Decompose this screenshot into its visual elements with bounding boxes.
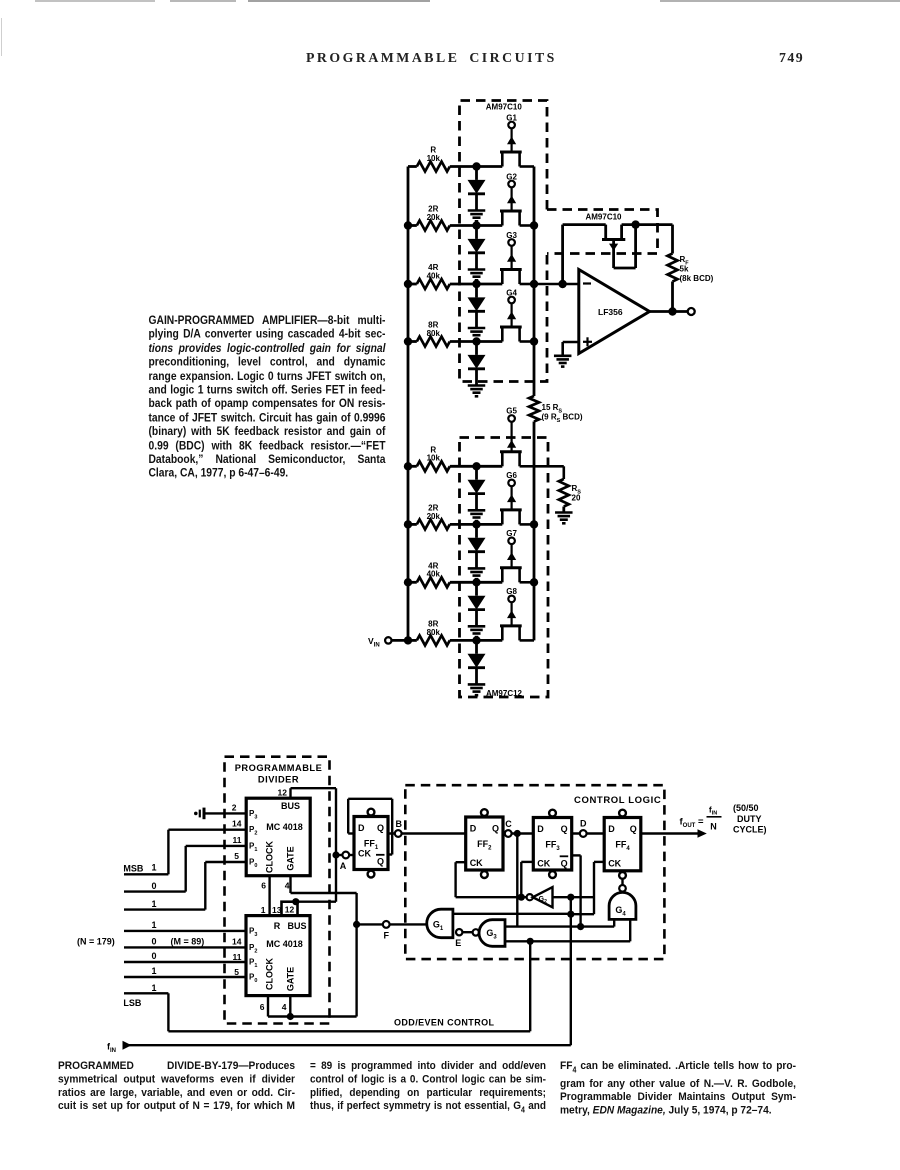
wire row 2 top section	[408, 224, 417, 227]
wire feedback top left	[563, 223, 606, 226]
svg-text:P0: P0	[249, 858, 257, 870]
wire chip1 P2 from MSB	[168, 829, 246, 831]
svg-text:5: 5	[234, 851, 239, 861]
svg-text:F: F	[383, 931, 389, 941]
svg-text:10k: 10k	[427, 154, 441, 163]
wire FF1 Qbar to D loop	[388, 853, 392, 855]
dashed box CONTROL LOGIC	[405, 785, 664, 959]
node chip2 pin12 junction	[292, 898, 299, 905]
terminal VIN	[385, 637, 391, 643]
wire odd-even to F riser	[290, 1015, 356, 1017]
wire inverting input line	[534, 283, 579, 286]
svg-text:5k: 5k	[680, 265, 689, 274]
wire E link	[462, 931, 472, 933]
diode clamp row 1 top	[475, 167, 478, 180]
svg-text:P2: P2	[249, 825, 257, 837]
wire fIN line	[129, 1044, 571, 1046]
wire chip1 P3	[204, 812, 246, 814]
svg-text:GATE: GATE	[286, 967, 296, 991]
diode clamp row 1 bottom	[475, 466, 478, 479]
caption column 2	[310, 1060, 546, 1118]
svg-text:1: 1	[151, 966, 156, 976]
ground (row 2 bottom)	[468, 567, 486, 570]
svg-text:Q: Q	[630, 824, 637, 834]
svg-text:D: D	[608, 824, 615, 834]
transistor JFET switch G7	[500, 566, 522, 569]
wire LSB riser to G3	[529, 941, 531, 1031]
svg-text:CK: CK	[537, 859, 550, 869]
diode clamp row 4 bottom	[475, 640, 478, 653]
svg-text:P0: P0	[249, 973, 257, 985]
wire chip1 P0 input	[205, 861, 246, 863]
wire G5 drain to right bus	[520, 465, 534, 468]
svg-text:LSB: LSB	[123, 998, 142, 1008]
wire RF bottom lead	[671, 282, 674, 312]
flip-flop FF2	[466, 817, 503, 870]
wire FF2 Q down to G3	[516, 834, 518, 927]
svg-text:P1: P1	[249, 958, 257, 970]
IC U2 MC4018 (upper)	[246, 798, 310, 876]
svg-text:13: 13	[272, 905, 282, 915]
svg-text:80k: 80k	[427, 628, 441, 637]
wire feedback riser	[561, 225, 564, 284]
resistor 2R 20k (bottom section)	[417, 519, 450, 529]
terminal B	[395, 830, 402, 837]
wire G3 input1 to G4	[505, 925, 614, 927]
svg-text:0: 0	[151, 881, 156, 891]
node right bus row2 top	[530, 221, 538, 229]
svg-text:G2: G2	[506, 172, 517, 181]
svg-text:FF2: FF2	[477, 839, 492, 852]
svg-text:CLOCK: CLOCK	[265, 841, 275, 873]
resistor 8R 80k (top section)	[417, 337, 450, 347]
node LSB junction G3	[527, 938, 534, 945]
svg-text:0: 0	[151, 951, 156, 961]
node diode junction row 4 top	[472, 337, 480, 345]
node junction on left bus y=341.5	[404, 337, 412, 345]
svg-text:11: 11	[233, 952, 242, 962]
caption column 1	[58, 1060, 295, 1113]
wire chip2 P3 input	[124, 930, 246, 932]
wire chip2 pin4	[289, 996, 291, 1017]
node chip2 pin4 junction	[287, 1013, 294, 1020]
bubble G4 top	[619, 885, 626, 892]
wire chip2 pin6	[267, 996, 269, 1017]
node diode junction row 1 top	[472, 162, 480, 170]
svg-text:B: B	[396, 819, 403, 829]
dashed box PROGRAMMABLE DIVIDER	[225, 757, 330, 1024]
svg-text:4: 4	[282, 1002, 287, 1012]
wire chip2 P2 input	[124, 946, 246, 948]
wire chip1 pin6 to chip2 pins 1,13	[268, 876, 270, 916]
wire FF2 Q to FF3 D (node C)	[503, 832, 533, 834]
svg-text:1: 1	[151, 983, 156, 993]
ground (row 4 top)	[468, 384, 486, 387]
svg-text:20k: 20k	[427, 512, 441, 521]
node diode junction row 2 bottom	[472, 520, 480, 528]
wire G8 drain to right bus	[520, 639, 534, 642]
node right bus row3 bottom	[530, 578, 538, 586]
node A tie on bus	[332, 851, 339, 858]
flip-flop FF1	[354, 817, 388, 870]
gate G1	[427, 909, 453, 938]
terminal F	[383, 921, 390, 928]
node junction on left bus y=284.0	[404, 280, 412, 288]
svg-text:5: 5	[234, 967, 239, 977]
transistor JFET switch G5	[500, 450, 522, 453]
svg-text:10k: 10k	[427, 454, 441, 463]
transistor feedback JFET (gate tied)	[602, 238, 625, 241]
svg-text:40k: 40k	[427, 271, 441, 280]
wire right bus (top AM97C10)	[533, 167, 536, 382]
svg-text:DUTY: DUTY	[737, 814, 762, 824]
svg-text:MSB: MSB	[123, 864, 143, 874]
node diode junction row 4 bottom	[472, 636, 480, 644]
node output junction	[668, 307, 676, 315]
svg-text:LF356: LF356	[598, 307, 623, 317]
svg-text:C: C	[505, 819, 512, 829]
svg-text:G4: G4	[615, 905, 626, 918]
svg-text:BUS: BUS	[287, 921, 306, 931]
wire row 3 top section	[408, 283, 417, 286]
node F junction	[353, 921, 360, 928]
wire G3 drain to right bus	[520, 283, 534, 286]
wire F line	[357, 923, 383, 925]
svg-text:14: 14	[232, 819, 242, 829]
wire right bus (AM97C12)	[533, 466, 536, 640]
svg-text:11: 11	[233, 835, 242, 845]
wire left input bus (top ladder)	[407, 167, 410, 641]
wire LSB	[124, 992, 168, 994]
dashed box IC AM97C10 (switches G1-G4)	[460, 101, 548, 382]
wire F to G1	[390, 923, 426, 925]
gate G4 NAND	[609, 892, 636, 919]
node diode junction row 2 top	[472, 221, 480, 229]
wire chip2 P0 input	[124, 976, 246, 978]
svg-text:P3: P3	[249, 926, 257, 938]
ground (row 4 bottom)	[468, 683, 486, 686]
wire row1 to RS 20	[534, 465, 564, 468]
wire op-amp output	[650, 310, 688, 313]
terminal D	[580, 830, 587, 837]
wire FF3 Qbar down	[572, 854, 581, 856]
diode clamp row 2 bottom	[475, 524, 478, 537]
svg-text:6: 6	[260, 1002, 265, 1012]
ground (row 1 top)	[468, 209, 486, 212]
svg-text:G6: G6	[506, 471, 517, 480]
svg-text:P1: P1	[249, 841, 257, 853]
terminal A	[342, 852, 349, 859]
svg-text:AM97C10: AM97C10	[486, 102, 523, 111]
node junction on left bus y=582.3	[404, 578, 412, 586]
wire FF4 Q output	[641, 832, 699, 834]
wire VIN to bus	[392, 639, 409, 642]
svg-text:Q: Q	[377, 857, 384, 867]
svg-text:1: 1	[151, 920, 156, 930]
node diode junction row 1 bottom	[472, 462, 480, 470]
flip-flop FF4	[604, 818, 641, 871]
node fIN to G1 line	[567, 911, 574, 918]
resistor RS 20	[559, 479, 569, 506]
wire row 1 top section	[408, 165, 417, 168]
wire G1 drain to right bus	[520, 165, 534, 168]
wire row 2 bottom section	[408, 523, 417, 526]
svg-text:fIN: fIN	[107, 1042, 116, 1055]
svg-text:G3: G3	[486, 928, 497, 941]
svg-text:D: D	[470, 823, 477, 833]
svg-text:20k: 20k	[427, 213, 441, 222]
svg-text:CONTROL LOGIC: CONTROL LOGIC	[574, 795, 661, 806]
svg-text:12: 12	[285, 905, 295, 915]
svg-text:fIN: fIN	[709, 805, 717, 817]
ground (row 3 top)	[468, 327, 486, 330]
node feedback gate junction	[631, 220, 639, 228]
wire G4 drain to right bus	[520, 340, 534, 343]
svg-text:Q: Q	[561, 824, 568, 834]
svg-text:MC 4018: MC 4018	[266, 822, 303, 832]
svg-text:CK: CK	[470, 858, 483, 868]
svg-text:6: 6	[261, 880, 266, 890]
svg-text:CK: CK	[358, 849, 371, 859]
svg-text:G1: G1	[506, 113, 517, 122]
svg-text:(N = 179): (N = 179)	[77, 937, 115, 947]
wire FF1 Q to FF2 D (node B)	[388, 832, 466, 834]
node junction on left bus y=524.4	[404, 520, 412, 528]
svg-text:80k: 80k	[427, 329, 441, 338]
svg-text:(M = 89): (M = 89)	[171, 937, 205, 947]
svg-text:P3: P3	[249, 809, 257, 821]
svg-text:G4: G4	[506, 288, 517, 297]
svg-text:VIN: VIN	[368, 636, 380, 649]
wire RS 20 to ground	[562, 507, 565, 513]
resistor 4R 40k (top section)	[417, 279, 450, 289]
arrow fIN	[123, 1041, 132, 1050]
svg-text:Q: Q	[492, 823, 499, 833]
wire FF3 Q to FF4 D (node D)	[572, 832, 605, 834]
wire G7 drain to right bus	[520, 581, 534, 584]
svg-text:G1: G1	[433, 919, 444, 932]
svg-text:PROGRAMMABLE: PROGRAMMABLE	[235, 763, 323, 773]
wire row 4 top section	[408, 340, 417, 343]
wire G4 bubble link	[621, 879, 623, 885]
terminal output	[688, 308, 695, 315]
svg-text:D: D	[537, 824, 544, 834]
wire chip1 pin4 to F riser	[289, 876, 291, 893]
transistor JFET switch G2	[500, 210, 522, 213]
svg-text:R: R	[274, 921, 281, 931]
wire G1 upper line	[453, 913, 571, 915]
ground (RS 20)	[555, 511, 573, 514]
diode clamp row 2 top	[475, 226, 478, 239]
arrow fOUT	[698, 829, 707, 838]
node fIN to G2 line	[567, 894, 574, 901]
svg-text:(8k BCD): (8k BCD)	[680, 274, 714, 283]
node diode junction row 3 top	[472, 280, 480, 288]
page header PROGRAMMABLE CIRCUITS	[306, 50, 557, 66]
svg-text:40k: 40k	[427, 570, 441, 579]
transistor JFET switch G8	[500, 624, 522, 627]
node junction on left bus y=225.5	[404, 221, 412, 229]
wire G2 input	[553, 896, 595, 898]
svg-text:(9 RS BCD): (9 RS BCD)	[542, 413, 583, 425]
wire RF top lead	[671, 225, 674, 254]
wire chip1 pin12 bus loop	[289, 788, 291, 798]
svg-text:G7: G7	[506, 529, 517, 538]
wire FF3 CK	[521, 861, 533, 863]
wire row 3 bottom section	[408, 581, 417, 584]
svg-text:CLOCK: CLOCK	[265, 958, 275, 990]
wire chip1 P1 input	[186, 845, 247, 847]
svg-text:G5: G5	[506, 407, 517, 416]
diode clamp row 4 top	[475, 342, 478, 355]
wire G3 input2 to G4	[505, 940, 630, 942]
resistor R 10k (bottom section)	[417, 461, 450, 471]
svg-text:20: 20	[572, 494, 581, 503]
transistor JFET switch G4	[500, 326, 522, 329]
node feedback tap	[558, 280, 566, 288]
svg-text:0: 0	[151, 937, 156, 947]
wire G2 output to FF2 CK	[456, 896, 527, 898]
wire row 1 bottom section	[408, 465, 417, 468]
svg-text:FF3: FF3	[545, 840, 560, 853]
resistor RF 5k (8k BCD)	[668, 254, 678, 282]
svg-text:CYCLE): CYCLE)	[733, 825, 767, 835]
terminal C	[505, 830, 512, 837]
node FF3 CK junction	[518, 894, 525, 901]
svg-text:FF4: FF4	[615, 840, 630, 853]
svg-text:D: D	[580, 819, 587, 829]
svg-text:MC 4018: MC 4018	[266, 939, 303, 949]
diode clamp row 3 bottom	[475, 582, 478, 595]
svg-text:ODD/EVEN CONTROL: ODD/EVEN CONTROL	[394, 1017, 495, 1027]
node FF2 Q junction	[514, 830, 521, 837]
node right bus row4 top	[530, 337, 538, 345]
node junction on left bus y=640.4	[404, 636, 412, 644]
svg-text:P2: P2	[249, 943, 257, 955]
resistor R 10k (top section)	[417, 162, 450, 172]
bubble G3 output	[473, 929, 479, 935]
svg-text:fOUT =: fOUT =	[680, 817, 704, 830]
svg-text:1: 1	[151, 862, 156, 872]
svg-text:Q: Q	[377, 823, 384, 833]
node junction on left bus y=466.3	[404, 462, 412, 470]
node diode junction row 3 bottom	[472, 578, 480, 586]
svg-text:E: E	[455, 938, 461, 948]
transistor JFET switch G3	[500, 268, 522, 271]
pin box 12 (chip2)	[282, 902, 298, 916]
IC U3 MC4018 (lower)	[246, 916, 310, 996]
svg-text:AM97C12: AM97C12	[486, 689, 523, 698]
svg-text:N: N	[710, 822, 717, 832]
dashed box IC AM97C10 (feedback FET)	[547, 210, 658, 254]
diode clamp row 3 top	[475, 284, 478, 297]
wire G2 drain to right bus	[520, 224, 534, 227]
caption column 3	[560, 1060, 796, 1118]
wire G6 drain to right bus	[520, 523, 534, 526]
ground (row 1 bottom)	[468, 509, 486, 512]
scan artifact dashes top edge	[35, 0, 155, 2]
svg-text:(50/50: (50/50	[733, 803, 759, 813]
wire A to FF1 CK	[349, 854, 354, 856]
svg-text:12: 12	[278, 788, 288, 798]
svg-text:Q: Q	[561, 859, 568, 869]
gate G2 inverter	[527, 894, 533, 900]
wire noninverting input	[563, 341, 579, 344]
gate G3	[479, 920, 505, 947]
wire FF4 CK riser	[594, 861, 604, 863]
ground (op-amp + input)	[554, 354, 572, 357]
ground (row 3 bottom)	[468, 625, 486, 628]
svg-text:14: 14	[232, 936, 242, 946]
svg-text:CK: CK	[608, 859, 621, 869]
transistor JFET switch G1	[500, 151, 522, 154]
dashed box IC AM97C12 (switches G5-G8)	[460, 438, 549, 698]
svg-text:DIVIDER: DIVIDER	[258, 775, 299, 785]
svg-text:2: 2	[232, 802, 237, 812]
svg-text:GATE: GATE	[286, 846, 296, 870]
svg-text:A: A	[340, 861, 347, 871]
wire 15RS to lower bus	[533, 422, 536, 467]
svg-text:G2: G2	[539, 896, 547, 905]
power logic-1 tie (chip1 P3)	[194, 812, 198, 816]
svg-text:AM97C10: AM97C10	[585, 213, 622, 222]
wire chip2 P1 input	[124, 961, 246, 963]
svg-text:1: 1	[151, 899, 156, 909]
node FF3 Qbar junction	[577, 923, 584, 930]
wire row 4 bottom section	[408, 639, 417, 642]
op-amp U1 LF356	[579, 270, 650, 354]
resistor 15 RS (9 RS BCD)	[529, 396, 539, 422]
node right bus row2 bottom	[530, 520, 538, 528]
text block: gain-programmed amplifier caption	[149, 315, 386, 482]
flip-flop FF3	[533, 818, 571, 871]
resistor 2R 20k (top section)	[417, 221, 450, 231]
svg-text:BUS: BUS	[281, 801, 300, 811]
resistor 8R 80k (bottom section)	[417, 635, 450, 645]
svg-text:G8: G8	[506, 587, 517, 596]
svg-text:4: 4	[285, 880, 290, 890]
wire feedback top right	[622, 223, 673, 226]
node right bus row3 top	[530, 280, 538, 288]
page number 749	[779, 50, 804, 66]
svg-text:G3: G3	[506, 231, 517, 240]
svg-text:1: 1	[261, 905, 266, 915]
resistor 4R 40k (bottom section)	[417, 577, 450, 587]
svg-text:D: D	[358, 823, 365, 833]
transistor JFET switch G6	[500, 508, 522, 511]
ground (row 2 top)	[468, 268, 486, 271]
wire right bus to 15RS	[533, 382, 536, 397]
bubble G1 output	[456, 929, 462, 935]
wire to point A	[336, 854, 343, 856]
